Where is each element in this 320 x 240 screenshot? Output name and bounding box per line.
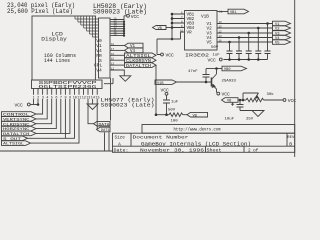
U1 pin 11 xyxy=(217,11,228,14)
note driver part numbers top xyxy=(93,3,147,16)
svg-text:CLKORSYN: CLKORSYN xyxy=(126,60,152,64)
wire V4 xyxy=(217,37,273,39)
wire clkdsync xyxy=(36,99,52,124)
net label V4 xyxy=(125,48,144,54)
svg-text:ALTSIGL: ALTSIGL xyxy=(3,143,25,147)
U3 pin stubs and numbers xyxy=(34,89,98,95)
power VCC rail xyxy=(208,57,223,63)
title block main xyxy=(113,133,295,152)
net label S OUT xyxy=(2,136,28,142)
svg-text:1uF: 1uF xyxy=(171,101,179,105)
net label V4 right xyxy=(273,35,291,41)
wire base node xyxy=(206,68,222,70)
wire horzsync xyxy=(36,99,56,129)
capacitor C4 xyxy=(255,28,261,60)
svg-text:2 of: 2 of xyxy=(248,148,259,153)
net label V1 right xyxy=(273,21,291,27)
resistor R1 100 xyxy=(169,113,183,124)
power VCC under U1 xyxy=(161,52,174,58)
wire control xyxy=(36,99,43,114)
wire U2 pin V1 xyxy=(110,45,125,47)
wire vertsync xyxy=(36,99,47,119)
net label VB pot xyxy=(222,98,239,104)
svg-text:DATALTCH: DATALTCH xyxy=(126,65,152,69)
svg-text:V4: V4 xyxy=(96,68,102,74)
title block texts row3 xyxy=(114,148,259,153)
wire to VB label xyxy=(183,114,187,116)
junction dots pot xyxy=(239,99,245,102)
svg-text:VB0: VB0 xyxy=(224,68,230,72)
svg-text:47nF: 47nF xyxy=(188,70,198,74)
net label V2 right xyxy=(273,26,291,32)
net label DATALTCH xyxy=(125,63,157,69)
svg-text:VCC: VCC xyxy=(15,103,24,109)
svg-text:V5: V5 xyxy=(275,42,280,46)
svg-text:10uF: 10uF xyxy=(225,118,235,122)
svg-text:VB1: VB1 xyxy=(230,11,236,15)
U1 right pin numbers xyxy=(219,21,223,43)
capacitor C3 xyxy=(246,33,252,60)
svg-text:VCC: VCC xyxy=(131,14,140,20)
svg-text:B: B xyxy=(289,141,292,147)
wire s out xyxy=(28,99,75,138)
potentiometer R2 30k xyxy=(243,92,274,102)
sheet border right xyxy=(294,0,296,157)
wire U2 pin V4 xyxy=(110,49,125,51)
wires U1 VB pins bus xyxy=(172,14,185,39)
svg-text:VCC: VCC xyxy=(222,91,231,97)
wire V1 xyxy=(217,23,273,25)
net label DATA0 xyxy=(94,121,111,127)
net label VERTSYNC xyxy=(2,117,37,123)
U1 left pin numbers xyxy=(180,11,184,32)
net label CLKDSYNC xyxy=(2,121,37,127)
svg-text:Sheet: Sheet xyxy=(207,148,222,153)
transistor Q1 2SA933 xyxy=(212,74,237,89)
power VCC top xyxy=(127,14,140,20)
svg-text:11: 11 xyxy=(219,11,223,14)
wire pins 1-2 xyxy=(34,99,39,105)
U1 name xyxy=(185,52,209,58)
U1 left pin labels xyxy=(187,13,195,36)
net label V1B left xyxy=(155,80,177,86)
U2 top pin numbers xyxy=(114,17,118,36)
wire V5 xyxy=(217,41,273,43)
U1 right pin labels V1-V5 xyxy=(207,22,213,45)
title block texts row2 xyxy=(118,141,292,147)
title block texts row1 xyxy=(115,136,296,141)
net label CONTROL xyxy=(2,112,37,118)
wire U2 bottom stubs xyxy=(104,78,113,84)
wire pin 15 to net xyxy=(96,99,98,130)
svg-text:50V: 50V xyxy=(168,109,176,113)
wire to lower circuit xyxy=(155,65,157,115)
svg-text:100: 100 xyxy=(171,120,179,124)
net label VB top xyxy=(222,66,247,72)
net label ALTSIGL xyxy=(125,53,157,59)
wire data nets down xyxy=(105,132,110,151)
cap values 1uF 50V xyxy=(211,46,220,58)
wire U2 pin FR xyxy=(110,54,125,56)
junction dot xyxy=(37,103,40,106)
junction dots V lines xyxy=(228,22,269,43)
U2 left pin labels xyxy=(94,38,103,73)
ground pin14 xyxy=(87,104,98,110)
wire collector xyxy=(216,69,218,75)
svg-text:Date:: Date: xyxy=(114,148,129,153)
net label DATALTCH xyxy=(2,131,37,137)
svg-text:VCC: VCC xyxy=(208,57,217,63)
svg-text:V3: V3 xyxy=(275,33,280,37)
U2 top right pins to VCC bus xyxy=(110,16,127,36)
svg-text:VCC: VCC xyxy=(166,52,175,58)
junction dots VCC bus xyxy=(123,21,125,37)
wire dataltch xyxy=(36,99,70,133)
capacitor C2 xyxy=(236,38,242,60)
net label V1 xyxy=(125,43,144,49)
svg-text:November 30, 1996: November 30, 1996 xyxy=(140,148,205,153)
svg-text:GameBoy Internals (LCD Section: GameBoy Internals (LCD Section) xyxy=(141,142,251,148)
svg-text:ALTSIGL: ALTSIGL xyxy=(126,55,152,59)
wire pin 13 to net xyxy=(88,99,94,124)
svg-text:25,600 Pixel (Late): 25,600 Pixel (Late) xyxy=(7,8,73,15)
junction dots VB bus xyxy=(171,13,174,41)
svg-text:25V: 25V xyxy=(246,118,254,122)
wire VCC rail caps xyxy=(223,59,267,61)
svg-text:VERTSYNC: VERTSYNC xyxy=(3,119,30,123)
junction dots rail xyxy=(228,58,259,61)
wire V2 xyxy=(217,27,273,29)
wire pot right to VCC xyxy=(264,98,297,104)
junction dots mid node xyxy=(155,113,168,116)
ground pot xyxy=(252,111,264,117)
net label CLKORSYN xyxy=(125,58,157,64)
svg-text:S OUT: S OUT xyxy=(3,138,22,142)
svg-text:V1B: V1B xyxy=(157,82,164,86)
svg-text:HORZSYNC: HORZSYNC xyxy=(3,128,30,132)
LCD column driver U3 xyxy=(32,80,103,90)
net label V5 right xyxy=(273,40,291,46)
svg-text:http://www.devrs.com: http://www.devrs.com xyxy=(174,128,221,133)
ground xyxy=(120,76,131,82)
junction dot base node xyxy=(215,67,218,70)
wire U2 bottom pin to ground xyxy=(110,70,124,76)
note driver part numbers right xyxy=(101,98,155,109)
svg-text:V1: V1 xyxy=(275,23,280,27)
wire mid node xyxy=(156,114,169,116)
svg-text:1uF: 1uF xyxy=(213,54,221,58)
common driver U2 xyxy=(99,18,111,78)
wire U2 pin 28 down xyxy=(110,84,112,121)
wire pin 14 to ground xyxy=(92,99,94,104)
net label VB xyxy=(153,26,173,32)
svg-text:30k: 30k xyxy=(267,92,275,97)
wire base xyxy=(177,81,212,83)
wire U2 pin CPL xyxy=(110,64,125,66)
svg-text:Size: Size xyxy=(115,136,126,141)
svg-text:144 Lines: 144 Lines xyxy=(44,58,70,64)
power VCC mid xyxy=(161,88,170,96)
wire row-line bus grid xyxy=(75,16,99,37)
svg-text:V5: V5 xyxy=(207,41,213,46)
net label VB mid xyxy=(187,112,208,118)
wire pot left xyxy=(238,99,246,101)
wire U2 pin S xyxy=(110,59,125,61)
net label HORZSYNC xyxy=(2,126,37,132)
net label ALTSIGL xyxy=(2,141,31,147)
capacitor C8 10uF 25V xyxy=(225,100,259,122)
svg-text:IR3E02: IR3E02 xyxy=(185,52,209,58)
wire VR pin to VCC xyxy=(157,32,185,55)
net label V3 right xyxy=(273,31,291,37)
svg-text:Document Number: Document Number xyxy=(133,136,190,141)
title block devrs box xyxy=(142,125,295,134)
svg-text:19: 19 xyxy=(114,34,118,37)
capacitor C6 47nF xyxy=(188,69,210,83)
net label DATA1 xyxy=(97,127,111,133)
power VCC left xyxy=(15,103,39,109)
svg-text:V1: V1 xyxy=(130,45,136,49)
svg-text:V4: V4 xyxy=(275,37,280,41)
wire V3 xyxy=(217,32,273,34)
junction dot cap-base xyxy=(205,81,208,84)
svg-text:VR: VR xyxy=(187,31,193,36)
svg-text:REV: REV xyxy=(287,136,295,140)
note pixel counts xyxy=(7,2,75,15)
svg-text:Display: Display xyxy=(41,35,67,42)
op-amp U1 bias generator IR3E02 xyxy=(185,11,218,51)
capacitor C5 xyxy=(265,24,271,60)
capacitor C1 xyxy=(227,42,233,60)
svg-text:V1B: V1B xyxy=(201,15,209,20)
sheet border bottom xyxy=(0,150,113,152)
net label VB1 xyxy=(228,9,249,15)
U2 right pin numbers xyxy=(111,43,115,71)
wire altsigl xyxy=(31,99,80,143)
svg-text:A: A xyxy=(118,141,121,147)
svg-text:50V: 50V xyxy=(211,46,219,50)
wire emitter to VCC xyxy=(217,89,231,97)
capacitor C7 1uF 50V xyxy=(163,95,179,115)
svg-text:V4: V4 xyxy=(130,50,136,54)
svg-text:S890023 (Late): S890023 (Late) xyxy=(101,103,155,109)
svg-text:2SA933: 2SA933 xyxy=(222,80,237,84)
LCD display panel xyxy=(32,16,95,80)
